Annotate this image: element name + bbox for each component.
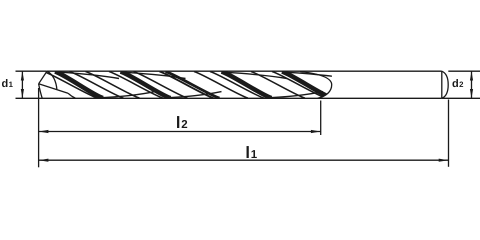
shank end cap flat [441,71,443,98]
dimension d2 line [471,71,473,98]
dimension d1 extension line bottom [16,97,43,99]
drill body top edge [47,70,442,72]
flute land edge stroke 4 [109,72,163,99]
dimension l2 arrow right [311,130,321,133]
dimension l1 arrow left [39,159,49,162]
helix back arc bottom 2 [169,92,222,98]
dimension d2 arrow down [470,89,473,98]
helix back arc top 1 [57,72,119,79]
flute groove thick band 3 [222,72,272,99]
dimension d1 extension line top [16,70,47,72]
flute runout end curve [300,72,332,99]
flute land edge stroke 5 [134,72,188,99]
flute land edge stroke 1 [44,72,98,99]
flute land edge stroke 6 [160,72,214,99]
dimension l1 line [39,159,449,161]
drill point tip [39,71,76,98]
helix back arc top 3 [222,72,287,79]
dimension l2 line [39,131,321,133]
flute groove thick band 4 [282,72,332,99]
flute land edge stroke 2 [70,72,124,99]
dimension d1 arrow up [21,71,24,80]
dimension d1 line [21,71,23,98]
drill body bottom edge [42,97,442,99]
flute land edge stroke 7 [166,72,220,99]
helix back arc top 2 [121,72,186,79]
dimension l2 arrow left [39,130,49,133]
l1 extension line [448,100,450,167]
dimension d2 arrow up [470,71,473,80]
helix back arc bottom 4 [331,92,384,98]
helix back arc bottom 3 [270,92,323,98]
flute land edge stroke 10 [251,72,305,99]
flute land edge stroke 3 [86,72,140,99]
helix back arc bottom 1 [102,92,155,98]
flute land edge stroke 9 [210,72,264,99]
flute land edge stroke 8 [194,72,248,99]
svg-text:d1: d1 [2,78,14,90]
flute land edge stroke 11 [272,72,326,99]
tip extension line for lengths [38,88,40,167]
dimension d2 extension line bottom [442,97,480,99]
shank end cap bulge [442,71,448,98]
dimension d2 extension line top [448,70,480,72]
svg-text:d2: d2 [452,78,464,90]
helix back arc top 4 [283,72,348,79]
dimension l1 arrow right [439,159,449,162]
dimension d1 arrow down [21,89,24,98]
l2 extension line [320,101,322,136]
flute groove thick band 1 [55,72,103,99]
flute groove thick band 2 [121,72,171,99]
